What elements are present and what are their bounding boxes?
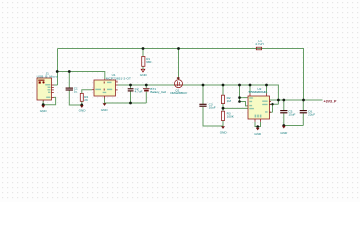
svg-text:USB_B_Micro: USB_B_Micro (37, 74, 58, 78)
svg-text:1u: 1u (74, 89, 78, 93)
svg-text:GND: GND (40, 109, 48, 113)
svg-text:GND: GND (254, 132, 262, 136)
svg-text:22uF: 22uF (308, 113, 315, 117)
svg-text:10uF: 10uF (209, 106, 216, 110)
svg-text:GND: GND (220, 131, 228, 135)
svg-text:GND: GND (140, 73, 148, 77)
svg-text:Battery_Cell: Battery_Cell (150, 90, 166, 94)
svg-text:GND: GND (280, 131, 288, 135)
svg-text:MCP73831-2-OT: MCP73831-2-OT (106, 76, 131, 80)
svg-text:100K: 100K (227, 115, 235, 119)
svg-text:TPS63020DSJR: TPS63020DSJR (248, 90, 267, 94)
svg-text:+3V3_P: +3V3_P (324, 100, 337, 104)
svg-text:15uF: 15uF (288, 113, 295, 117)
svg-text:4.7uF: 4.7uF (135, 89, 143, 93)
svg-text:1M: 1M (227, 99, 232, 103)
svg-text:GND: GND (79, 109, 87, 113)
svg-text:DMG2305UX: DMG2305UX (170, 91, 187, 95)
svg-text:GND: GND (101, 108, 109, 112)
svg-text:680: 680 (146, 60, 151, 64)
svg-text:4.7uH: 4.7uH (255, 42, 263, 46)
